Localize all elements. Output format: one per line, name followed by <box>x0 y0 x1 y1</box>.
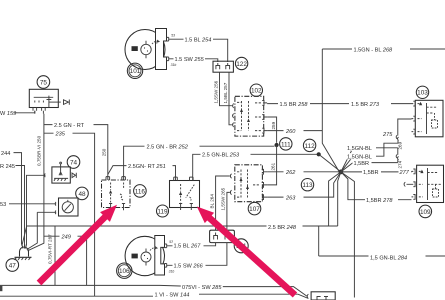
hook at motor 109 middle pin <box>404 182 405 186</box>
clock 48 <box>59 198 79 216</box>
svg-text:2.5 GN - RT: 2.5 GN - RT <box>54 123 85 129</box>
wire 235 branch down to bottom bus <box>44 130 95 296</box>
pink arrow pointing to relay 119 <box>197 207 295 296</box>
svg-text:235: 235 <box>55 131 66 137</box>
inline connector pair upper (275) <box>382 119 412 150</box>
svg-text:1.5 SW 266: 1.5 SW 266 <box>174 264 204 270</box>
wire 1.5SW 266 <box>169 243 227 270</box>
temperature sensor 74 <box>52 162 70 183</box>
wire 0.75VI-RT 287 <box>48 226 56 285</box>
svg-text:2.5 BR 248: 2.5 BR 248 <box>268 225 297 231</box>
svg-text:101: 101 <box>130 68 141 75</box>
wire 259 from switch 102 to node 111 <box>267 117 277 143</box>
ground bus 2.5BR 248 <box>27 223 338 231</box>
ref circle 102 <box>250 84 262 96</box>
ground terminal 47 <box>15 226 32 260</box>
svg-text:112: 112 <box>305 143 316 150</box>
star junction node 112/113 <box>339 170 344 175</box>
wire 243 from left edge to clock 48 <box>0 202 56 208</box>
svg-text:249: 249 <box>61 234 71 240</box>
wiper motor 106 body <box>125 236 164 276</box>
svg-text:2.5GN- RT 251: 2.5GN- RT 251 <box>128 164 166 170</box>
wire BR 245 from left edge to ground bundle <box>0 164 25 249</box>
switch 102 left hook pins <box>232 104 234 108</box>
switch 107 left hook pins <box>230 174 232 178</box>
long vertical wire from star junction to bottom <box>341 172 355 298</box>
wire 2.5GN-RT 250 from relay 75 to relay 116 <box>44 122 108 181</box>
ref circle 101 <box>127 63 142 78</box>
switch 102 right pins <box>262 101 267 106</box>
svg-text:259: 259 <box>271 121 276 129</box>
relay 119 <box>170 177 200 210</box>
bus 1VI-SW 144 <box>0 291 308 299</box>
svg-text:1,5SW 256: 1,5SW 256 <box>213 80 218 103</box>
wire 1.5GN-BL lower branch to connector <box>341 143 394 172</box>
node dot on 253 at junction 112 <box>317 152 321 156</box>
svg-text:244: 244 <box>1 151 10 157</box>
svg-text:2.5 GN - BR 252: 2.5 GN - BR 252 <box>147 145 189 151</box>
svg-text:113: 113 <box>302 182 313 189</box>
svg-text:260: 260 <box>285 129 296 135</box>
svg-text:103: 103 <box>417 90 428 97</box>
ref circle 109 <box>419 205 432 218</box>
svg-text:1,5GN-BL: 1,5GN-BL <box>347 146 372 152</box>
bus 0.75VI-SW 285 <box>0 283 307 296</box>
svg-text:48: 48 <box>78 191 86 198</box>
svg-text:116: 116 <box>135 188 146 195</box>
svg-text:47: 47 <box>9 262 17 269</box>
svg-text:1,5 GN-BL 284: 1,5 GN-BL 284 <box>370 255 407 261</box>
wire 1.5BL 267 <box>169 242 216 249</box>
pin 75-2 <box>42 108 46 114</box>
wiper switch 107 <box>235 165 263 202</box>
wire 2.5GN-BR 252 from relay 116 to node 111 <box>124 143 275 180</box>
wire 261 from node 111 down to switch 107 <box>267 145 277 185</box>
relay 116 <box>102 177 131 211</box>
wire 1.5BL 257 <box>223 72 232 125</box>
wire 1.5SW 256 <box>213 72 232 106</box>
svg-text:277: 277 <box>399 170 410 176</box>
svg-text:261: 261 <box>270 162 275 170</box>
wiper motor relay 109 <box>417 165 444 202</box>
svg-text:1.5 BL 267: 1.5 BL 267 <box>174 244 202 250</box>
connector 122 <box>213 61 233 72</box>
svg-text:263: 263 <box>285 195 296 201</box>
pink arrow pointing to relay 116 <box>39 205 117 283</box>
wire 1.5BR 278 from star junction to motor 103/109 <box>341 172 412 204</box>
ref circle 48 <box>76 187 89 200</box>
inline connector pair lower <box>394 148 403 169</box>
wire 1.5GN-BL 284 <box>319 254 445 261</box>
wire 1.5BR 258 / 273 to motor 103 <box>267 101 411 108</box>
svg-text:275: 275 <box>382 132 393 138</box>
ref circle 47 <box>6 259 19 272</box>
wire 249 branch to bottom bus <box>44 233 87 285</box>
wires from star junction down to ground bus 248 <box>329 172 341 226</box>
svg-text:274: 274 <box>398 160 403 168</box>
svg-text:109: 109 <box>420 209 431 216</box>
wire 1.5BL 264 from switch 107 to connector 121 <box>209 176 229 230</box>
node dot 111 <box>275 143 279 147</box>
svg-text:107: 107 <box>249 206 260 213</box>
motor 106 pin 53 <box>165 240 174 247</box>
svg-text:1.5 BL 254: 1.5 BL 254 <box>185 37 212 43</box>
motor 101 pin 53 <box>167 34 176 41</box>
svg-text:53: 53 <box>0 202 6 208</box>
svg-text:1,5BR: 1,5BR <box>363 170 379 176</box>
wire 1.5BL 254 <box>171 36 228 62</box>
svg-text:W 159: W 159 <box>0 111 16 117</box>
connector arrow at relay 75 output <box>64 100 70 105</box>
wire 260 <box>267 128 322 135</box>
svg-text:R 245: R 245 <box>0 164 15 170</box>
wire from 253 node to star junction <box>319 154 341 172</box>
svg-text:0,75BR·VI 250: 0,75BR·VI 250 <box>37 135 42 166</box>
wire SW 159 to left edge <box>0 111 35 117</box>
wire from sensor 74 to ground bundle <box>26 174 46 249</box>
svg-text:102: 102 <box>251 88 262 95</box>
svg-text:1 VI - SW 144: 1 VI - SW 144 <box>155 292 190 298</box>
wire from clock 48 pin 2 to ground bundle <box>27 211 56 250</box>
wiper switch 102 <box>235 96 264 136</box>
ref circle 75 <box>37 76 50 89</box>
svg-text:111: 111 <box>281 141 291 148</box>
ref circle 107 <box>248 202 261 215</box>
svg-text:74: 74 <box>70 159 78 166</box>
ref circle 113 <box>301 179 313 191</box>
svg-text:1,5BL 257: 1,5BL 257 <box>223 82 228 103</box>
svg-text:31b: 31b <box>169 269 175 273</box>
wire 1.5GN-BL 268 <box>322 46 445 53</box>
wiper motor relay 103 <box>415 100 443 137</box>
connector arrow at sensor 74 <box>72 173 76 178</box>
svg-text:75: 75 <box>40 79 48 86</box>
motor 109 left pins <box>412 169 416 174</box>
wire 1.5BR 277 from star junction to motor 103/109 <box>341 169 412 176</box>
svg-text:0,75VI-RT 287: 0,75VI-RT 287 <box>48 234 53 264</box>
svg-text:106: 106 <box>119 268 130 275</box>
wire 1.5SW 255 <box>171 56 218 63</box>
svg-text:1.5 BR 258: 1.5 BR 258 <box>280 102 309 108</box>
svg-text:BL 264: BL 264 <box>209 194 214 209</box>
wire 0.75BR-VI 250 vertical from relay 75 down to ground bundle <box>28 114 44 251</box>
black mark at left edge <box>0 286 2 291</box>
svg-text:1,5BR: 1,5BR <box>354 161 370 167</box>
wiper motor 101 body <box>125 29 167 70</box>
svg-text:075VI - SW 285: 075VI - SW 285 <box>182 285 222 291</box>
vertical wire 268 down to star junction <box>322 49 339 171</box>
svg-text:1,5SW 265: 1,5SW 265 <box>221 187 226 210</box>
svg-text:1.5 SW 255: 1.5 SW 255 <box>175 57 205 63</box>
wire 2.5GN-BL 253 <box>193 151 319 180</box>
switch 107 right pins <box>262 169 267 174</box>
svg-text:1,5BR 278: 1,5BR 278 <box>366 198 393 204</box>
ref circle 111 <box>280 138 292 150</box>
motor 103 left pins <box>412 101 416 106</box>
wire 262 from switch 107 to star junction <box>267 169 339 176</box>
wire 1.5SW 265 from switch 107 to connector 121 <box>221 187 230 230</box>
motor 106 pin 31b <box>165 264 175 274</box>
motor 101 pin 31b <box>167 57 177 67</box>
ref circle 103 <box>416 86 428 98</box>
pin 75-1 <box>33 108 37 114</box>
svg-text:119: 119 <box>157 208 168 215</box>
svg-text:31b: 31b <box>171 63 177 67</box>
wire 1.5GN-BL upper branch to connector <box>341 145 394 172</box>
wire 2.5GN-RT 251 to relay 119 <box>108 163 176 181</box>
svg-text:1.5GN - BL 268: 1.5GN - BL 268 <box>354 47 394 53</box>
ref circle 112 <box>303 139 315 151</box>
svg-text:250: 250 <box>101 148 106 156</box>
wire 263 from switch 107 to star junction <box>267 172 341 202</box>
connector 121 <box>210 230 235 242</box>
svg-text:2.5 GN-BL 253: 2.5 GN-BL 253 <box>202 153 240 159</box>
svg-text:2: 2 <box>155 41 158 45</box>
ref circle 116 <box>134 185 147 198</box>
ref circle 119 <box>157 205 169 217</box>
svg-text:262: 262 <box>285 170 296 176</box>
ref circle 106 <box>117 263 132 278</box>
svg-text:2: 2 <box>153 247 156 251</box>
svg-text:122: 122 <box>236 61 247 68</box>
relay K 75 <box>29 89 61 107</box>
ref circle 121 <box>234 239 248 253</box>
wire 244 from left edge to ground bundle <box>1 151 23 249</box>
wire 1.5BR 276 branch <box>341 160 394 172</box>
ref circle 122 <box>235 57 247 69</box>
svg-text:1.5 BR 273: 1.5 BR 273 <box>351 102 380 108</box>
svg-text:53: 53 <box>171 34 175 38</box>
bottom connector box <box>307 292 335 300</box>
ref circle 74 <box>67 156 80 169</box>
vertical wire from bus 248 down to bus 284 <box>318 226 320 256</box>
